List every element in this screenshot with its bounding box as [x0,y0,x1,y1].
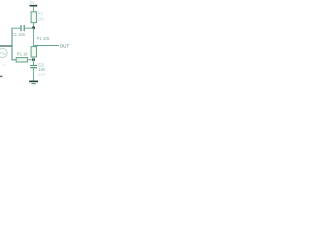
wire R2 to node A [33,23,35,28]
P1 wiper arrow [37,45,38,47]
capacitor C2 [30,65,37,67]
source circle G1 [0,48,7,57]
wire wiper to OUT [34,45,59,47]
ground [29,80,38,82]
wire node A to P1 top [33,28,35,47]
potentiometer P1 body [31,47,36,57]
svg-text:9V: 9V [29,0,36,5]
node B junction dot [32,58,35,61]
wire R1 to node B [28,59,34,61]
svg-text:63V: 63V [38,72,46,77]
wire P1 bottom to node B and C2 [33,57,35,65]
wire C2 to ground [33,68,35,81]
resistor R2 [31,12,36,23]
svg-text:OUT: OUT [60,43,70,48]
edge fragment left [0,76,2,78]
wire power bar to R2 [33,6,35,12]
svg-text:10k: 10k [38,16,46,21]
wire node A to C1 right plate [25,27,34,29]
svg-text:1k: 1k [1,62,5,67]
svg-text:P1 10k: P1 10k [37,36,51,41]
wire input from left edge [0,45,12,47]
power rail bar [30,5,38,7]
resistor R1 [16,58,27,62]
wire C1 left plate to corner [12,27,21,29]
capacitor C1 [20,25,22,31]
node A junction dot [32,26,35,29]
svg-text:R1 1k: R1 1k [17,52,29,57]
svg-text:C1 10n: C1 10n [12,32,26,37]
wire left vertical [11,28,13,61]
wire corner to R1 [12,59,16,61]
